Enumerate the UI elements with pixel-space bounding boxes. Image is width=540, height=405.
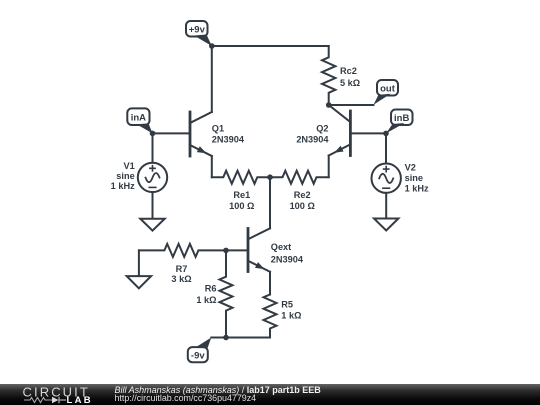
ground V1 — [140, 219, 164, 231]
svg-text:out: out — [380, 83, 396, 94]
wire emitters junction to Qext collector — [269, 177, 271, 228]
CircuitLab logo — [0, 384, 100, 405]
svg-text:1 kHz: 1 kHz — [111, 181, 135, 191]
svg-text:inB: inB — [394, 113, 409, 124]
ground V2 — [374, 219, 398, 231]
resistor R7 — [139, 244, 226, 284]
wire inB to V2 — [385, 133, 387, 163]
svg-text:Q1: Q1 — [212, 123, 224, 133]
node junction emitters — [267, 174, 273, 180]
svg-text:R7: R7 — [176, 264, 188, 274]
wire top rail — [212, 45, 329, 47]
resistor Re1 — [212, 171, 270, 211]
svg-text:1 kΩ: 1 kΩ — [281, 310, 301, 320]
svg-text:R5: R5 — [281, 300, 293, 310]
svg-text:100 Ω: 100 Ω — [229, 201, 254, 211]
node junction out — [326, 102, 332, 108]
wire out — [329, 104, 374, 106]
svg-text:100 Ω: 100 Ω — [290, 201, 315, 211]
node junction +9v — [209, 43, 215, 49]
transistor Qext — [248, 228, 304, 271]
svg-text:sine: sine — [405, 173, 423, 183]
ground R7 — [127, 276, 151, 288]
resistor R6 — [196, 250, 232, 337]
svg-text:inA: inA — [131, 112, 146, 123]
wire +9v to Q1 collector — [211, 46, 213, 112]
svg-text:LAB: LAB — [67, 395, 93, 405]
node -9v label — [188, 338, 212, 363]
node junction inA — [150, 131, 156, 137]
svg-text:3 kΩ: 3 kΩ — [171, 274, 191, 284]
svg-text:2N3904: 2N3904 — [296, 134, 329, 144]
transistor Q2 — [296, 105, 350, 156]
wire V2 to ground — [385, 193, 387, 219]
footer bar — [0, 384, 540, 405]
svg-text:Qext: Qext — [271, 242, 291, 252]
node inA label — [127, 108, 152, 133]
svg-text:V2: V2 — [405, 163, 416, 173]
svg-text:5 kΩ: 5 kΩ — [340, 78, 360, 88]
wire bottom rail — [211, 337, 270, 339]
svg-text:Rc2: Rc2 — [340, 66, 357, 76]
wire Q2 base — [351, 132, 386, 134]
svg-text:2N3904: 2N3904 — [212, 134, 245, 144]
transistor Q1 — [190, 112, 245, 156]
wire Qext base — [226, 249, 247, 251]
node +9v label — [186, 21, 212, 46]
resistor R5 — [264, 295, 302, 338]
svg-text:-9v: -9v — [191, 350, 205, 361]
svg-text:2N3904: 2N3904 — [271, 255, 304, 265]
voltage source V2 — [372, 163, 430, 194]
node out label — [374, 80, 399, 105]
node junction -9v — [223, 335, 229, 341]
svg-text:R6: R6 — [205, 284, 217, 294]
svg-text:Re1: Re1 — [233, 190, 250, 200]
voltage source V1 — [111, 161, 168, 192]
svg-text:1 kHz: 1 kHz — [405, 184, 429, 194]
wire Re2 to Q2 emitter — [328, 156, 330, 178]
wire R7 to ground — [138, 250, 140, 276]
svg-text:sine: sine — [116, 171, 134, 181]
wire V1 to ground — [152, 192, 154, 219]
node junction inB — [383, 131, 389, 137]
svg-text:1 kΩ: 1 kΩ — [196, 295, 216, 305]
node junction R7/R6/Qext — [223, 248, 229, 254]
wire inA to V1 — [152, 133, 154, 162]
resistor Rc2 — [322, 46, 360, 105]
wire Qext emitter to R5 — [269, 272, 271, 295]
svg-text:Q2: Q2 — [316, 123, 328, 133]
footer credit text — [115, 386, 321, 403]
resistor Re2 — [270, 171, 329, 211]
wire Q1 base — [153, 132, 190, 134]
wire Q1 emitter to Re1 — [211, 156, 213, 177]
svg-text:Re2: Re2 — [294, 190, 311, 200]
svg-text:V1: V1 — [123, 161, 134, 171]
node inB label — [386, 110, 413, 134]
svg-text:+9v: +9v — [189, 24, 206, 35]
